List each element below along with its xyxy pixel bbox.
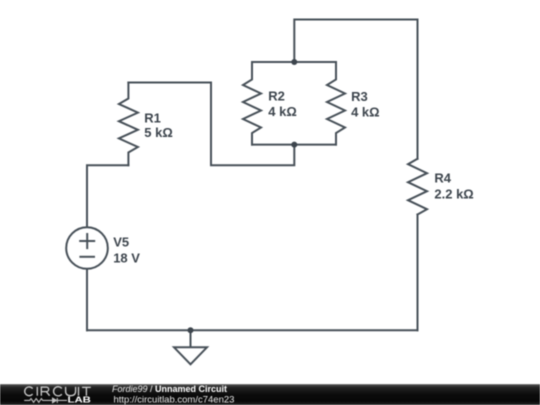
footer title text (112, 384, 234, 405)
wire from top node up across to right side (294, 20, 417, 159)
svg-text:http://circuitlab.com/c74en23: http://circuitlab.com/c74en23 (114, 395, 235, 405)
svg-text:5 kΩ: 5 kΩ (144, 125, 173, 140)
CircuitLab logo wordmark CIRCUIT (25, 387, 91, 396)
svg-text:4 kΩ: 4 kΩ (268, 104, 297, 119)
svg-text:V5: V5 (113, 235, 129, 250)
svg-text:R1: R1 (144, 110, 161, 125)
CircuitLab logo resistor-diode glyph (24, 398, 67, 403)
node junction dot top of parallel pair (291, 59, 297, 65)
svg-text:R4: R4 (434, 171, 451, 186)
resistor R4 (408, 159, 427, 215)
svg-text:R3: R3 (351, 89, 368, 104)
svg-text:18 V: 18 V (113, 250, 140, 265)
node junction dot bottom of parallel pair (291, 142, 297, 148)
resistor R1 (119, 83, 138, 166)
wire bottom rail of parallel pair (252, 144, 336, 146)
wire top rail of parallel pair (252, 61, 336, 63)
ground (174, 330, 207, 364)
wire V5 minus terminal down to bottom rail (86, 269, 88, 331)
voltage source V5 (66, 227, 108, 269)
resistor R3 (327, 62, 345, 145)
svg-text:Fordie99 / Unnamed Circuit: Fordie99 / Unnamed Circuit (112, 384, 227, 394)
wire from R1 top right then down to bottom node of parallel pair (128, 83, 294, 166)
node junction dot ground (188, 327, 194, 333)
svg-text:4 kΩ: 4 kΩ (351, 105, 380, 120)
svg-text:LAB: LAB (68, 395, 91, 405)
wire bottom rail (87, 329, 418, 331)
wire from V5 plus terminal up and right to R1 bottom (87, 165, 128, 227)
svg-text:R2: R2 (268, 89, 285, 104)
resistor R2 (243, 62, 261, 145)
wire R4 bottom down to bottom rail (417, 215, 419, 331)
svg-text:2.2 kΩ: 2.2 kΩ (434, 187, 473, 202)
